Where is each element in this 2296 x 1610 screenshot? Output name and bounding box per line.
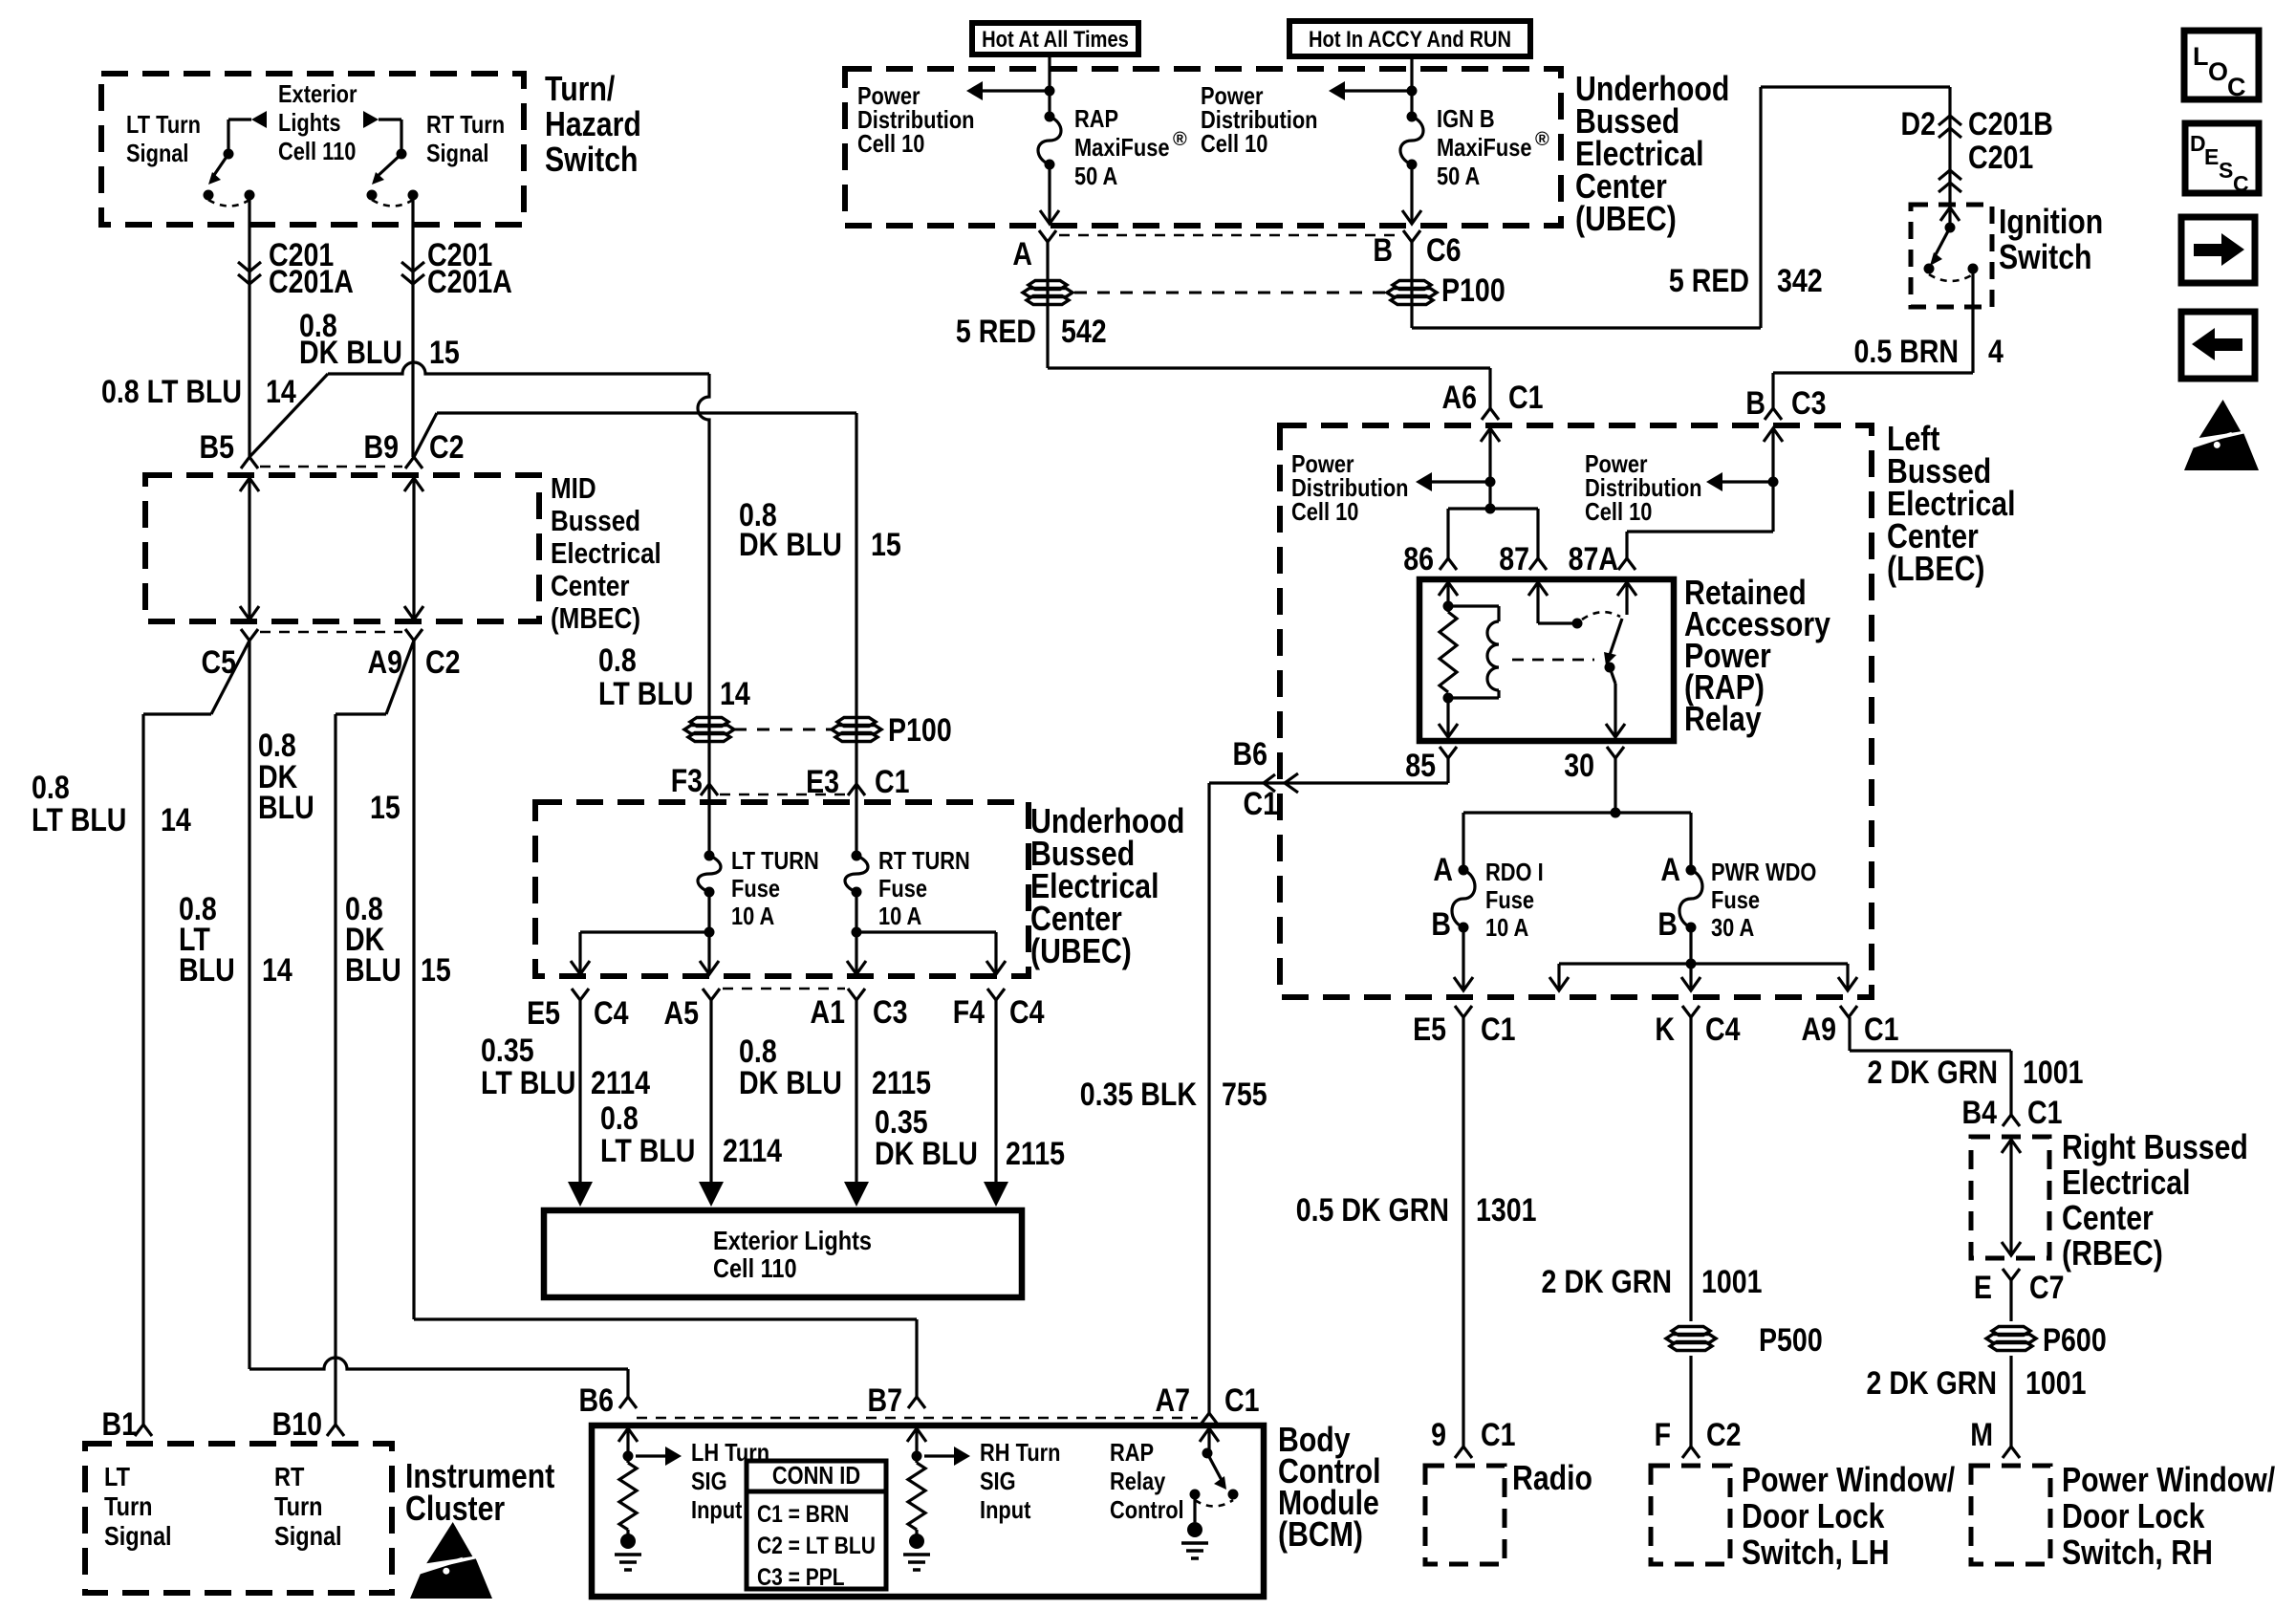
ignition switch contacts xyxy=(1924,264,1935,274)
svg-text:0.5 BRN: 0.5 BRN xyxy=(1854,334,1960,370)
svg-text:C: C xyxy=(2233,171,2249,196)
svg-text:O: O xyxy=(2208,57,2228,86)
svg-text:E5: E5 xyxy=(527,995,560,1032)
svg-text:Bussed: Bussed xyxy=(551,504,640,537)
component box Turn/Hazard Switch xyxy=(101,74,524,225)
relay coil top link xyxy=(1448,604,1499,607)
svg-text:A9: A9 xyxy=(1802,1012,1837,1048)
svg-text:C7: C7 xyxy=(2029,1270,2065,1306)
svg-text:C1: C1 xyxy=(1864,1012,1899,1048)
junction relay coil bottom xyxy=(1443,693,1454,704)
fuse RAP MaxiFuse 50 A xyxy=(1045,112,1055,122)
wire LT TURN fuse output xyxy=(707,892,710,974)
terminal A7 BCM xyxy=(1201,1413,1218,1425)
relay switch pivot xyxy=(1605,663,1615,673)
wire RAP fuse output xyxy=(1048,164,1051,224)
terminal 9 radio xyxy=(1455,1447,1472,1458)
svg-text:DK BLU: DK BLU xyxy=(739,527,842,563)
terminal C5 xyxy=(241,629,258,641)
grommet dashed link A-B xyxy=(1074,292,1385,294)
fuse PWR WDO 30 A xyxy=(1686,865,1697,876)
svg-text:Center: Center xyxy=(551,569,630,602)
svg-text:5 RED: 5 RED xyxy=(1669,263,1749,299)
terminal F switch LH xyxy=(1682,1447,1700,1458)
resistor RH turn input xyxy=(908,1463,925,1530)
svg-text:C3: C3 xyxy=(873,994,908,1031)
wire exterior lights feed left elbow xyxy=(228,118,251,120)
wire RDO I output xyxy=(1462,927,1464,990)
connector interface line F3-E3 xyxy=(720,794,845,796)
svg-text:P500: P500 xyxy=(1759,1322,1823,1359)
wire K feed xyxy=(1689,964,1692,990)
svg-text:B4: B4 xyxy=(1962,1095,1998,1131)
svg-text:B: B xyxy=(1657,906,1678,943)
component box Body Control Module (BCM) xyxy=(592,1425,1264,1597)
wire P600 to switch RH xyxy=(2009,1356,2012,1447)
svg-text:BLU: BLU xyxy=(179,952,235,989)
relay switch blade xyxy=(1609,619,1622,658)
wire MBEC pass-through RT xyxy=(412,478,415,620)
ignition switch blade xyxy=(1934,228,1950,258)
wire 5 RED 342 run xyxy=(1412,326,1761,329)
svg-text:BLU: BLU xyxy=(345,952,401,989)
svg-text:Signal: Signal xyxy=(104,1521,172,1551)
svg-text:C6: C6 xyxy=(1426,232,1462,269)
wire ignition feed to IGN B MaxiFuse xyxy=(1410,56,1413,117)
svg-text:LT: LT xyxy=(104,1462,130,1491)
svg-text:C1: C1 xyxy=(2027,1095,2063,1131)
legend right arrow box xyxy=(2181,217,2255,283)
grommet P600 xyxy=(1992,1327,2030,1336)
wire branch to F4 xyxy=(856,930,996,933)
svg-text:B: B xyxy=(1373,232,1393,269)
svg-text:PWR WDO: PWR WDO xyxy=(1711,858,1816,886)
terminal F4 UBEC xyxy=(987,989,1005,1000)
svg-text:Lights: Lights xyxy=(278,108,341,137)
wire B C3 into LBEC xyxy=(1764,428,1783,442)
svg-text:4: 4 xyxy=(1988,334,2004,370)
contact RT switch xyxy=(367,190,378,201)
legend left arrow box xyxy=(2181,312,2255,379)
svg-text:C3 = PPL: C3 = PPL xyxy=(757,1564,845,1591)
wire A9 feed xyxy=(1846,964,1849,990)
svg-text:RT TURN: RT TURN xyxy=(878,846,970,875)
connector interface line A5-A1 xyxy=(723,988,845,990)
connector interface line A-B UBEC xyxy=(1059,234,1401,237)
fuse RT TURN 10 A xyxy=(852,851,862,861)
svg-text:0.8: 0.8 xyxy=(600,1100,639,1137)
component box Exterior Lights Cell 110 xyxy=(544,1210,1022,1297)
arrow to exterior lights right xyxy=(363,111,379,128)
wire A9 to RBEC xyxy=(1848,1017,1851,1051)
svg-text:10 A: 10 A xyxy=(1485,913,1528,942)
contact LT switch xyxy=(204,190,214,201)
wire B5 diagonal to LT TURN fuse feed xyxy=(249,374,328,457)
banner Hot At All Times xyxy=(972,23,1138,54)
svg-text:Electrical: Electrical xyxy=(2062,1163,2191,1202)
BCM relay control blade xyxy=(1207,1453,1223,1482)
svg-text:(UBEC): (UBEC) xyxy=(1575,199,1677,238)
svg-text:Input: Input xyxy=(691,1495,743,1524)
svg-text:0.5 DK GRN: 0.5 DK GRN xyxy=(1296,1192,1449,1229)
junction IGN B feed xyxy=(1407,86,1418,97)
junction relay coil feed xyxy=(1485,504,1496,514)
svg-text:542: 542 xyxy=(1061,314,1107,350)
svg-text:P100: P100 xyxy=(888,712,952,749)
terminal B C3 xyxy=(1765,408,1782,420)
svg-text:Cell 10: Cell 10 xyxy=(1201,129,1267,158)
connector interface line C5-A9 xyxy=(260,631,402,634)
svg-text:C201B: C201B xyxy=(1968,106,2053,142)
wire 0.8 DK BLU 2115 to exterior lights xyxy=(855,1000,857,1186)
svg-text:P100: P100 xyxy=(1441,272,1505,309)
svg-text:Fuse: Fuse xyxy=(1485,885,1534,914)
component box Power Window/Door Lock Switch LH xyxy=(1651,1466,1730,1564)
arrow B6 exit xyxy=(1285,773,1298,793)
arrow RH Turn SIG xyxy=(924,1454,954,1457)
svg-text:85: 85 xyxy=(1405,748,1436,784)
svg-text:Center: Center xyxy=(2062,1198,2154,1237)
fuse IGN B MaxiFuse 50 A xyxy=(1407,112,1418,122)
svg-text:30: 30 xyxy=(1564,748,1594,784)
svg-text:F: F xyxy=(1655,1417,1671,1453)
svg-text:B7: B7 xyxy=(868,1382,903,1419)
svg-text:F4: F4 xyxy=(953,994,985,1031)
svg-text:Power Window/: Power Window/ xyxy=(1742,1460,1955,1499)
terminal B5 xyxy=(241,457,258,468)
svg-text:SIG: SIG xyxy=(980,1467,1016,1495)
svg-text:0.8: 0.8 xyxy=(32,770,70,806)
svg-text:Relay: Relay xyxy=(1684,699,1762,738)
svg-text:Fuse: Fuse xyxy=(878,874,927,903)
banner Hot In ACCY And RUN xyxy=(1289,21,1530,56)
junction fuse bus xyxy=(1611,808,1621,818)
legend LOC box xyxy=(2184,31,2259,99)
svg-text:S: S xyxy=(2219,158,2233,183)
terminal B UBEC xyxy=(1403,230,1420,242)
wire C5 diagonal to cluster B1 xyxy=(211,641,249,714)
fuse LT TURN 10 A xyxy=(704,851,715,861)
wire window bus stub xyxy=(1557,964,1560,990)
wire PWR WDO output bus xyxy=(1689,927,1692,964)
svg-text:B: B xyxy=(1431,906,1451,943)
component box Underhood Bussed Electrical Center (UBEC) lower xyxy=(535,802,1029,976)
grommet P100 F3 xyxy=(690,718,728,727)
svg-text:A1: A1 xyxy=(811,994,846,1031)
legend DESC box xyxy=(2185,123,2259,193)
svg-text:1001: 1001 xyxy=(2025,1365,2087,1402)
svg-text:DK BLU: DK BLU xyxy=(875,1136,978,1172)
wire branch to E5 xyxy=(580,930,709,933)
svg-text:Switch: Switch xyxy=(545,140,639,179)
relay coil bottom link xyxy=(1448,696,1499,699)
svg-text:Exterior Lights: Exterior Lights xyxy=(713,1226,872,1255)
svg-text:1001: 1001 xyxy=(2023,1055,2084,1091)
terminal 30 relay xyxy=(1607,747,1624,758)
svg-text:0.35 BLK: 0.35 BLK xyxy=(1080,1077,1198,1113)
grommet P100 E3 xyxy=(837,718,876,727)
junction B distribution xyxy=(1768,477,1779,488)
svg-text:B10: B10 xyxy=(272,1406,322,1443)
svg-text:C1 = BRN: C1 = BRN xyxy=(757,1501,849,1528)
wire B to 5 RED 342 xyxy=(1410,242,1413,328)
component box Power Window/Door Lock Switch RH xyxy=(1971,1466,2050,1564)
svg-text:87A: 87A xyxy=(1569,541,1618,577)
wire IGN B fuse output xyxy=(1410,164,1413,224)
terminal A6 xyxy=(1482,408,1499,420)
svg-text:Radio: Radio xyxy=(1512,1458,1592,1497)
wire RT TURN fuse output xyxy=(855,892,857,974)
svg-text:Fuse: Fuse xyxy=(1711,885,1760,914)
svg-text:B: B xyxy=(1745,385,1765,422)
svg-text:C201: C201 xyxy=(1968,140,2033,176)
svg-text:Hazard: Hazard xyxy=(545,104,641,143)
svg-text:LT TURN: LT TURN xyxy=(731,846,819,875)
BCM LH turn input wire xyxy=(618,1428,638,1442)
component box Left Bussed Electrical Center (LBEC) xyxy=(1280,425,1872,997)
switch RT pivot junction xyxy=(397,149,407,160)
connector interface line BCM C1 xyxy=(637,1417,1198,1420)
BCM relay control contacts xyxy=(1190,1490,1201,1500)
resistor relay suppression xyxy=(1440,612,1457,692)
wire A9 vertical to BCM B7 xyxy=(412,641,415,1319)
svg-text:LT BLU: LT BLU xyxy=(32,802,126,838)
svg-text:Switch: Switch xyxy=(1999,237,2092,276)
svg-text:2115: 2115 xyxy=(1006,1136,1065,1172)
svg-text:Door Lock: Door Lock xyxy=(1742,1496,1885,1535)
svg-text:2114: 2114 xyxy=(591,1065,650,1101)
svg-text:C3: C3 xyxy=(1791,385,1827,422)
relay 85 internal wire xyxy=(1446,698,1449,737)
ignition switch feed arrow xyxy=(1940,207,1960,221)
svg-text:Exterior: Exterior xyxy=(278,79,357,108)
svg-text:30 A: 30 A xyxy=(1711,913,1754,942)
svg-text:C4: C4 xyxy=(1705,1012,1741,1048)
grommet P100 A xyxy=(1029,281,1067,290)
relay 30 internal wire xyxy=(1610,667,1615,684)
switch LT pivot junction xyxy=(224,149,234,160)
ESD warning symbol legend xyxy=(2199,400,2242,438)
svg-text:Turn: Turn xyxy=(274,1491,323,1521)
svg-text:15: 15 xyxy=(421,952,451,989)
svg-text:RT Turn: RT Turn xyxy=(426,110,505,139)
component box Radio xyxy=(1425,1466,1505,1564)
wire F3 to LT TURN fuse xyxy=(707,784,710,856)
svg-text:C1: C1 xyxy=(1224,1382,1260,1419)
svg-text:1001: 1001 xyxy=(1701,1264,1763,1300)
svg-text:MaxiFuse: MaxiFuse xyxy=(1437,133,1532,162)
svg-text:F3: F3 xyxy=(671,763,703,799)
component box Ignition Switch xyxy=(1911,205,1992,307)
ESD warning symbol cluster xyxy=(426,1522,472,1563)
svg-text:86: 86 xyxy=(1403,541,1434,577)
svg-text:A5: A5 xyxy=(664,995,700,1032)
junction RT TURN output xyxy=(852,927,862,938)
svg-text:C1: C1 xyxy=(1481,1417,1516,1453)
svg-text:LT BLU: LT BLU xyxy=(481,1065,575,1101)
svg-text:DK BLU: DK BLU xyxy=(739,1065,842,1101)
svg-text:2115: 2115 xyxy=(872,1065,931,1101)
wire 0.8 LT BLU 14 to B1 xyxy=(141,714,144,1425)
svg-text:0.8: 0.8 xyxy=(598,642,637,679)
component box Underhood Bussed Electrical Center (UBEC) top xyxy=(845,69,1561,226)
svg-text:LT BLU: LT BLU xyxy=(600,1133,695,1169)
svg-text:Cell 110: Cell 110 xyxy=(278,137,356,165)
svg-text:RAP: RAP xyxy=(1110,1438,1154,1467)
svg-text:Ignition: Ignition xyxy=(1999,202,2103,241)
svg-text:E: E xyxy=(1974,1270,1992,1306)
svg-text:5 RED: 5 RED xyxy=(956,314,1036,350)
svg-text:LT Turn: LT Turn xyxy=(126,110,201,139)
terminal B7 BCM xyxy=(908,1397,925,1408)
svg-text:Relay: Relay xyxy=(1110,1467,1166,1495)
svg-text:14: 14 xyxy=(266,374,296,410)
arrow LH Turn SIG xyxy=(636,1454,665,1457)
svg-text:D2: D2 xyxy=(1901,106,1937,142)
terminal M switch RH xyxy=(2003,1447,2020,1458)
grommet P100 B xyxy=(1393,281,1431,290)
svg-text:A7: A7 xyxy=(1156,1382,1191,1419)
svg-text:Electrical: Electrical xyxy=(551,536,661,570)
wire 0.35 DK BLU 2115 to exterior lights xyxy=(994,1000,997,1186)
svg-text:Cluster: Cluster xyxy=(405,1489,505,1528)
svg-text:Input: Input xyxy=(980,1495,1031,1524)
resistor LH turn input xyxy=(619,1463,637,1530)
junction RAP relay control xyxy=(1202,1448,1213,1459)
svg-text:755: 755 xyxy=(1222,1077,1267,1113)
wire P500 to switch LH xyxy=(1689,1356,1692,1447)
svg-text:C2: C2 xyxy=(429,429,465,466)
switch blade LT Turn xyxy=(212,154,228,178)
svg-text:14: 14 xyxy=(720,676,750,712)
grommet P500 xyxy=(1672,1327,1710,1336)
ground LH turn input xyxy=(626,1530,629,1539)
svg-text:Control: Control xyxy=(1110,1495,1184,1524)
svg-text:C4: C4 xyxy=(1009,994,1045,1031)
svg-text:MID: MID xyxy=(551,471,596,505)
svg-text:B9: B9 xyxy=(364,429,400,466)
junction A6 distribution xyxy=(1485,477,1496,488)
svg-text:B6: B6 xyxy=(1233,736,1268,772)
svg-text:A9: A9 xyxy=(368,644,403,681)
terminal A9 LBEC xyxy=(1840,1006,1857,1017)
wire 0.8 DK BLU 15 run to E3 xyxy=(437,411,856,414)
terminal E RBEC xyxy=(2003,1269,2020,1280)
wire exterior lights feed right elbow xyxy=(379,118,401,120)
junction LT TURN output xyxy=(704,927,715,938)
connector C201/C201A inline RT xyxy=(401,262,424,272)
svg-text:Switch, RH: Switch, RH xyxy=(2062,1533,2213,1572)
svg-text:DK BLU: DK BLU xyxy=(299,335,402,371)
terminal 87 relay xyxy=(1529,558,1547,570)
svg-text:E5: E5 xyxy=(1413,1012,1446,1048)
wire 0.8 DK BLU 15 to B10 xyxy=(334,714,336,1425)
wire MBEC pass-through LT xyxy=(248,478,250,620)
terminal E5 UBEC xyxy=(572,989,589,1000)
relay NC contact xyxy=(1572,619,1583,629)
svg-text:A6: A6 xyxy=(1442,380,1478,416)
svg-text:SIG: SIG xyxy=(691,1467,727,1495)
terminal K LBEC xyxy=(1682,1006,1700,1017)
svg-text:C2: C2 xyxy=(425,644,461,681)
ground RAP relay control xyxy=(1193,1494,1196,1522)
svg-text:15: 15 xyxy=(429,335,460,371)
svg-text:RAP: RAP xyxy=(1074,104,1118,133)
svg-text:C201A: C201A xyxy=(427,264,512,300)
svg-text:2 DK GRN: 2 DK GRN xyxy=(1867,1365,1998,1402)
relay mechanical link dashed xyxy=(1512,659,1594,662)
CONN ID table xyxy=(747,1461,886,1589)
ground RH turn input xyxy=(915,1530,918,1539)
BCM RAP relay control wire xyxy=(1200,1428,1219,1442)
svg-text:Cell 10: Cell 10 xyxy=(857,129,924,158)
terminal 86 relay xyxy=(1440,558,1457,570)
arrow power distribution left 1 xyxy=(983,89,1050,92)
svg-text:C2 = LT BLU: C2 = LT BLU xyxy=(757,1533,876,1559)
terminal 87A relay xyxy=(1618,558,1635,570)
connector C201 inline xyxy=(1939,183,1961,192)
wire E3 to RT TURN fuse xyxy=(855,784,857,856)
svg-text:Right Bussed: Right Bussed xyxy=(2062,1127,2248,1166)
svg-text:C: C xyxy=(2227,73,2246,101)
wire 0.8 LT BLU 14 horizontal run to F3 xyxy=(328,362,709,374)
fuse RDO I 10 A xyxy=(1459,865,1469,876)
svg-text:0.8 LT BLU: 0.8 LT BLU xyxy=(101,374,242,410)
svg-text:C201A: C201A xyxy=(269,264,354,300)
svg-text:CONN ID: CONN ID xyxy=(772,1461,860,1490)
svg-text:Signal: Signal xyxy=(126,139,189,167)
wire 0.35 LT BLU 2114 to exterior lights xyxy=(578,1000,581,1186)
svg-text:BLU: BLU xyxy=(258,790,314,826)
svg-text:10 A: 10 A xyxy=(878,902,921,930)
relay 87A internal wire xyxy=(1617,582,1636,596)
arrow to exterior lights left xyxy=(251,111,267,128)
svg-text:Signal: Signal xyxy=(274,1521,342,1551)
svg-text:M: M xyxy=(1970,1417,1993,1453)
connector interface line B5-B9 xyxy=(260,466,402,468)
svg-text:C1: C1 xyxy=(1481,1012,1516,1048)
svg-text:C1: C1 xyxy=(875,764,910,800)
wire 85 to B6 exit xyxy=(1446,758,1449,783)
svg-text:(UBEC): (UBEC) xyxy=(1030,931,1132,970)
svg-text:C4: C4 xyxy=(594,995,629,1032)
wire RT turn output xyxy=(411,195,414,457)
arrow power distribution left 3 xyxy=(1432,480,1490,483)
svg-text:14: 14 xyxy=(262,952,292,989)
wire E to P600 xyxy=(2009,1280,2012,1321)
terminal E5 LBEC xyxy=(1455,1006,1472,1017)
svg-text:(RBEC): (RBEC) xyxy=(2062,1233,2163,1273)
svg-text:C2: C2 xyxy=(1706,1417,1742,1453)
connector C201/C201A inline LT xyxy=(238,262,261,272)
svg-text:2 DK GRN: 2 DK GRN xyxy=(1868,1055,1999,1091)
component box Instrument Cluster xyxy=(85,1444,392,1593)
relay contact dashed arc xyxy=(1582,612,1620,620)
svg-text:K: K xyxy=(1655,1012,1675,1048)
svg-text:Signal: Signal xyxy=(426,139,489,167)
svg-text:L: L xyxy=(2193,42,2209,71)
svg-text:C1: C1 xyxy=(1244,786,1279,822)
wire B9 diagonal to RT TURN fuse feed xyxy=(414,413,437,457)
terminal E3 xyxy=(848,784,865,795)
wire B7 horizontal run xyxy=(414,1317,917,1320)
wire LT turn output xyxy=(248,195,250,457)
wire A9 diagonal to cluster B10 xyxy=(386,641,414,714)
junction LH turn input xyxy=(623,1451,634,1462)
svg-text:RDO I: RDO I xyxy=(1485,858,1544,886)
terminal A5 UBEC xyxy=(703,989,720,1000)
svg-text:B1: B1 xyxy=(102,1406,138,1443)
